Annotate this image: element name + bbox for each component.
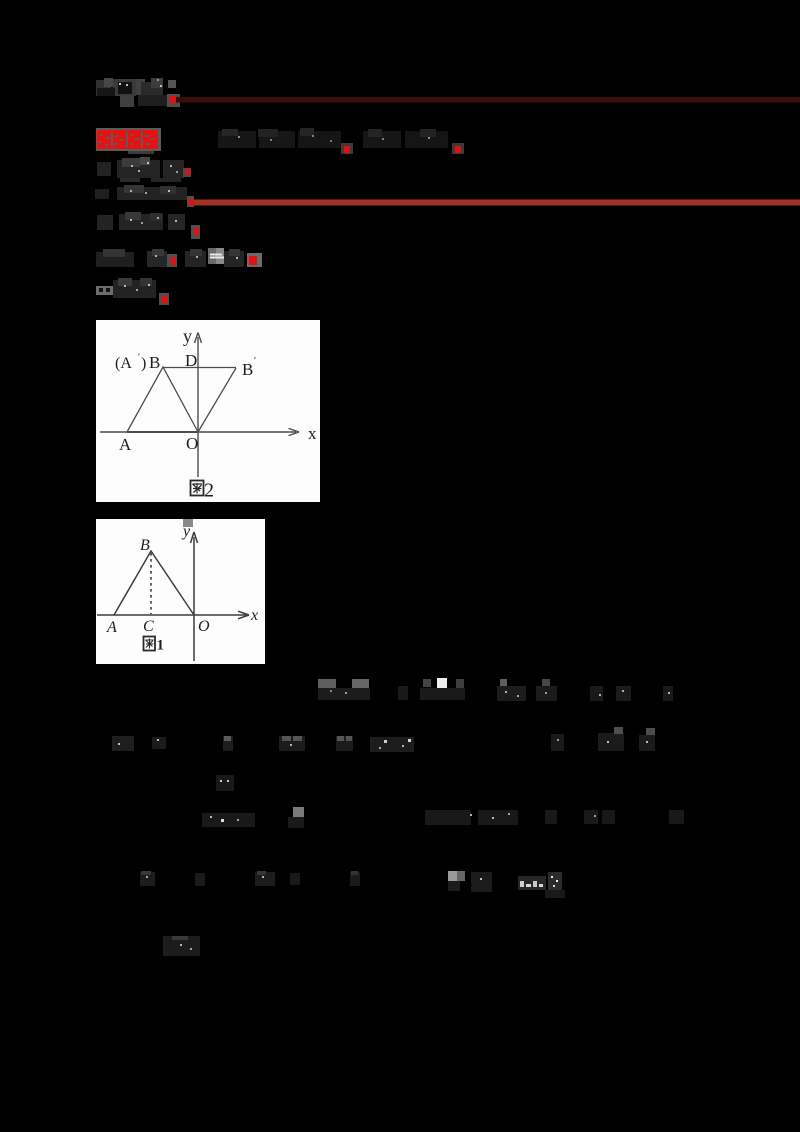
svg-text:x: x [308, 424, 317, 443]
label O (fig2) [186, 434, 198, 453]
bright red horizontal rule [194, 200, 800, 206]
red dot line (2) [187, 196, 194, 207]
heading red dot a [341, 143, 353, 154]
red dot line 5 [159, 293, 169, 305]
label x (fig2) [308, 424, 317, 443]
label B (fig1) [140, 537, 150, 554]
faint text line 1 [96, 78, 176, 107]
label A (fig2) [119, 435, 132, 454]
svg-text:C: C [143, 618, 154, 635]
label y (fig1) [181, 523, 191, 540]
heading red dot b [452, 143, 464, 154]
figure 2 white panel [96, 320, 320, 502]
faint radical expression y~940 [163, 936, 200, 956]
segment B to B' through D (fig2) [163, 367, 236, 369]
label y (fig2) [183, 326, 192, 346]
svg-text:′: ′ [138, 352, 140, 362]
scan artifact gray blob (fig1) [183, 519, 193, 527]
triangle A B O (fig1) [114, 551, 194, 615]
svg-text:y: y [181, 523, 191, 540]
faint centered text row y~680 [318, 678, 673, 701]
svg-text:A: A [106, 619, 117, 636]
heading faint text [218, 128, 448, 148]
caption numeral 1 (fig1) [157, 638, 165, 654]
x-axis (fig1) [97, 611, 249, 619]
red heading on gray box [96, 128, 161, 154]
y-axis (fig2) [195, 333, 202, 478]
red dot line (1) [183, 168, 191, 177]
svg-text:): ) [141, 355, 146, 372]
triangle A B O (fig2) [127, 367, 198, 432]
svg-text:B: B [242, 360, 253, 379]
y-axis (fig1) [191, 532, 198, 661]
label C (fig1) [143, 618, 154, 635]
svg-text:x: x [250, 607, 258, 624]
label D (fig2) [185, 351, 197, 370]
faint text line (2) [95, 185, 187, 200]
figure 1 white panel [96, 519, 265, 664]
svg-text:(A: (A [115, 355, 132, 372]
svg-text:1: 1 [157, 638, 165, 654]
faint text line 5 [96, 278, 156, 298]
svg-text:O: O [198, 618, 210, 635]
label B' (fig2) [242, 356, 256, 379]
caption box around tu character (fig2) [191, 481, 204, 496]
svg-text:2: 2 [204, 480, 214, 502]
svg-text:A: A [119, 435, 132, 454]
faint text line (1) [97, 157, 184, 182]
dark red horizontal rule [176, 97, 800, 103]
faint glyph y~778 [216, 775, 234, 791]
faint formula row y~735 [112, 727, 655, 752]
svg-text:B: B [149, 353, 160, 372]
dotted altitude B to C (fig1) [150, 553, 152, 614]
label O (fig1) [198, 618, 210, 635]
red heading fake glyphs [97, 130, 158, 149]
x-axis (fig2) [100, 428, 299, 435]
label A (fig1) [106, 619, 117, 636]
label x (fig1) [250, 607, 258, 624]
faint formula row y~880 [140, 871, 565, 898]
label (A') B (fig2) [115, 352, 160, 372]
svg-text:D: D [185, 351, 197, 370]
faint formula row y~815 [202, 807, 684, 828]
svg-text:O: O [186, 434, 198, 453]
svg-text:′: ′ [254, 356, 256, 367]
red dot line (3) [191, 225, 200, 239]
svg-text:y: y [183, 326, 192, 346]
red period dot 1 [167, 94, 180, 107]
red dot line 4 a [167, 254, 177, 267]
segment B' to O (fig2) [198, 368, 236, 432]
caption numeral 2 (fig2) [204, 480, 214, 502]
caption box around tu character (fig1) [144, 637, 156, 651]
faint text line 4 [96, 248, 244, 267]
svg-text:B: B [140, 537, 150, 554]
faint text line (3) [97, 212, 185, 230]
red dot line 4 b [247, 253, 262, 267]
